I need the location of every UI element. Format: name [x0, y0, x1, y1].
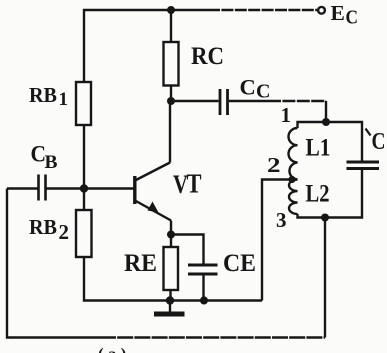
capacitor C tank — [347, 162, 380, 169]
svg-text:C: C — [240, 75, 256, 100]
svg-text:RB: RB — [29, 215, 57, 239]
label 3 — [276, 208, 287, 232]
capacitor CB — [39, 175, 46, 201]
wire base node to RB2 — [83, 189, 85, 211]
label C tank — [366, 129, 386, 156]
wire collector lead — [169, 101, 171, 163]
svg-text:C: C — [346, 7, 359, 29]
inductor L2 — [289, 180, 298, 215]
capacitor CE — [188, 265, 218, 274]
svg-text:CE: CE — [223, 250, 256, 277]
wire tank bottom to feedback rail — [324, 218, 326, 338]
node CE ground junction — [200, 297, 208, 305]
wire CB right lead to base — [46, 187, 134, 189]
svg-text:3: 3 — [276, 208, 287, 232]
wire collector to CC — [171, 100, 219, 102]
svg-text:C: C — [256, 81, 270, 103]
label CC — [240, 75, 271, 103]
node emitter junction — [167, 231, 175, 239]
capacitor CC — [220, 89, 228, 115]
label VT — [173, 169, 202, 200]
svg-text:RC: RC — [191, 43, 224, 70]
svg-text:L2: L2 — [306, 181, 330, 208]
wire CE bottom lead — [202, 276, 204, 301]
svg-text:B: B — [45, 152, 58, 173]
wire RB1 to base node — [83, 125, 85, 189]
wire top supply rail — [84, 10, 317, 82]
label EC — [331, 1, 359, 29]
wire RB2 bottom to common rail — [84, 257, 262, 301]
wire CC to tank top — [229, 101, 326, 122]
node top rail / RC junction — [167, 6, 175, 14]
ground — [154, 301, 185, 317]
inductor L1 — [289, 128, 298, 180]
label CB — [31, 142, 58, 174]
resistor RB1 — [76, 82, 91, 125]
svg-text:2: 2 — [59, 220, 70, 244]
svg-text:RB: RB — [29, 83, 57, 107]
label 2 — [267, 153, 281, 177]
wire left feedback branch — [7, 189, 325, 338]
wire emitter to CE — [171, 235, 204, 264]
wire CB left lead — [7, 187, 38, 189]
label RB2 — [29, 215, 69, 244]
wire RC top lead — [170, 10, 172, 42]
label 1 — [281, 103, 292, 127]
label RC — [191, 43, 224, 70]
svg-text:1: 1 — [281, 103, 292, 127]
svg-text:T: T — [187, 169, 202, 199]
resistor RC — [164, 42, 179, 86]
node base junction — [80, 184, 88, 192]
node collector junction — [167, 97, 175, 105]
label RE — [124, 250, 157, 277]
label L1 — [306, 135, 331, 162]
wire RC bottom lead — [170, 86, 172, 102]
wire tank bottom — [298, 170, 363, 218]
node RE ground junction — [166, 296, 174, 304]
label RB1 — [29, 83, 68, 110]
node tank bottom junction — [321, 214, 329, 222]
svg-text:1: 1 — [59, 89, 69, 110]
svg-text:E: E — [331, 1, 345, 25]
label L2 — [306, 181, 330, 208]
label caption a — [98, 345, 126, 353]
svg-text:2: 2 — [267, 153, 281, 177]
wire emitter lead — [170, 221, 172, 248]
svg-text:( a ): ( a ) — [98, 345, 126, 353]
resistor RE — [164, 247, 179, 290]
transistor VT — [135, 163, 171, 221]
label CE — [223, 250, 256, 277]
svg-text:C: C — [372, 129, 386, 155]
node tank top junction — [322, 118, 330, 126]
resistor RB2 — [76, 210, 92, 257]
node tap 2 — [288, 176, 295, 183]
svg-text:RE: RE — [124, 250, 157, 277]
svg-text:L1: L1 — [306, 135, 331, 162]
wire RE bottom lead — [169, 290, 171, 301]
wire tap 2 to common rail — [262, 180, 293, 301]
terminal EC — [318, 7, 325, 14]
wire tank top — [298, 122, 363, 161]
